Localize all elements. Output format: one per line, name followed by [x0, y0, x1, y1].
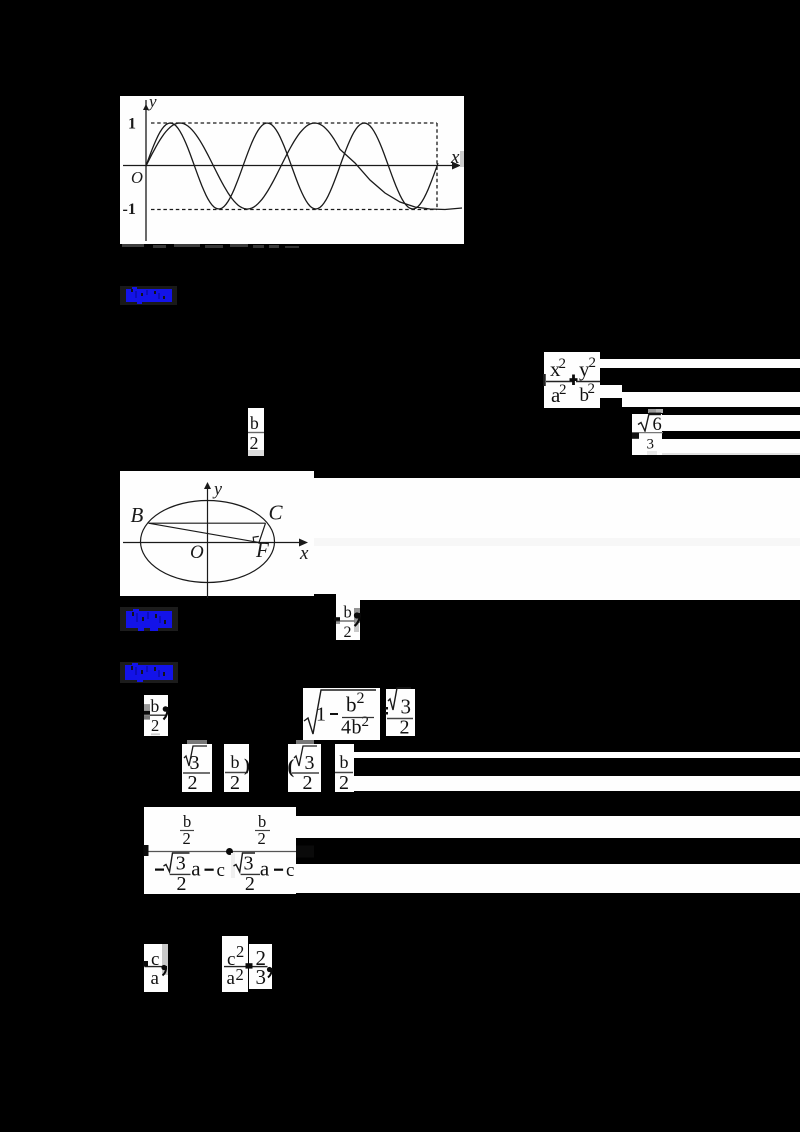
svg-text:a: a [151, 968, 160, 989]
svg-text:C: C [269, 501, 284, 525]
svg-text:2: 2 [559, 356, 567, 372]
svg-text:3: 3 [647, 437, 655, 453]
svg-text:3: 3 [244, 853, 254, 875]
svg-text:y: y [147, 92, 157, 111]
svg-text:1: 1 [128, 116, 136, 133]
svg-text:2: 2 [250, 433, 259, 453]
svg-text:b: b [231, 752, 240, 772]
svg-text:): ) [244, 755, 250, 776]
svg-text:b: b [352, 717, 362, 739]
svg-text:x: x [299, 543, 309, 564]
svg-text:2: 2 [236, 942, 244, 961]
svg-text:3: 3 [401, 695, 412, 719]
svg-text:c: c [286, 860, 294, 881]
svg-text:4: 4 [341, 717, 351, 739]
svg-text:O: O [190, 542, 204, 563]
svg-text:b: b [340, 752, 349, 772]
svg-text:2: 2 [589, 355, 597, 371]
svg-text:3: 3 [176, 853, 186, 875]
svg-text:3: 3 [256, 965, 267, 989]
svg-text:b: b [344, 603, 352, 622]
svg-text:2: 2 [400, 717, 410, 739]
svg-text:2: 2 [559, 382, 567, 398]
svg-text:a: a [191, 856, 201, 880]
svg-text:2: 2 [183, 829, 191, 848]
svg-text:c: c [217, 860, 225, 881]
svg-text:2: 2 [588, 381, 596, 397]
svg-text:2: 2 [303, 772, 313, 794]
svg-text:2: 2 [177, 873, 187, 895]
svg-text:y: y [212, 479, 222, 499]
svg-text:B: B [131, 503, 144, 527]
svg-text:b: b [250, 413, 259, 433]
svg-text:a: a [260, 856, 270, 880]
svg-text:2: 2 [188, 772, 198, 794]
svg-text:2: 2 [258, 829, 266, 848]
svg-text:3: 3 [190, 752, 200, 774]
svg-text:(: ( [288, 756, 295, 778]
svg-text:2: 2 [230, 772, 240, 794]
svg-text:2: 2 [236, 965, 244, 984]
svg-text:b: b [346, 693, 357, 717]
svg-text:O: O [131, 168, 143, 187]
svg-text:2: 2 [151, 716, 159, 735]
svg-text:b: b [151, 696, 160, 716]
svg-text:-1: -1 [123, 201, 136, 218]
svg-text:2: 2 [357, 690, 365, 707]
svg-text:2: 2 [362, 714, 370, 730]
svg-text:x: x [450, 147, 460, 168]
svg-text:2: 2 [344, 624, 352, 641]
svg-text:1: 1 [316, 704, 326, 726]
svg-text:F: F [255, 538, 269, 562]
svg-text:3: 3 [305, 752, 315, 774]
svg-text:a: a [227, 968, 236, 989]
svg-text:2: 2 [339, 772, 349, 794]
svg-text:2: 2 [245, 873, 255, 895]
